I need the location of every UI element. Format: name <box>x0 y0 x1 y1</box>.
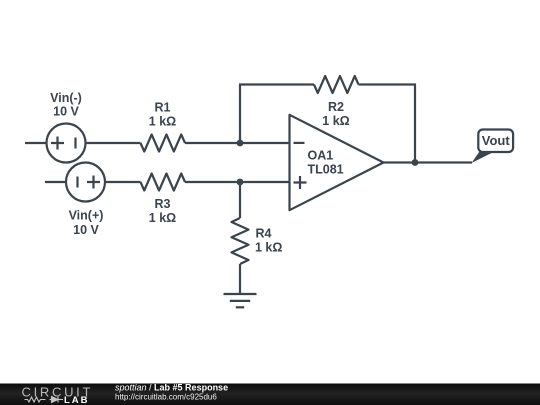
svg-text:1 kΩ: 1 kΩ <box>322 114 349 128</box>
label R3 1 kΩ <box>149 197 176 225</box>
junction node A (R1 / R2 / inverting input) <box>237 140 244 147</box>
wire node B down to R4 <box>239 181 241 218</box>
wire V1 left lead <box>25 142 47 144</box>
svg-text:1 kΩ: 1 kΩ <box>149 211 176 225</box>
wire feedback riser from node A <box>239 85 241 144</box>
svg-text:R4: R4 <box>256 227 272 241</box>
wire R1 to op-amp inverting input <box>185 142 290 144</box>
svg-text:http://circuitlab.com/c925du6: http://circuitlab.com/c925du6 <box>115 392 217 401</box>
label op-amp OA1 TL081 <box>308 149 344 177</box>
node flag Vout <box>472 130 514 164</box>
label R2 1 kΩ <box>322 100 349 128</box>
wire feedback top left to R2 <box>239 83 314 85</box>
resistor R4 <box>232 218 249 264</box>
resistor R3 <box>141 174 185 191</box>
junction node B (R3 / R4 / non-inverting input) <box>237 179 244 186</box>
voltage source V1 Vin(-) <box>47 124 86 163</box>
op-amp U1 body <box>290 115 384 210</box>
svg-text:10 V: 10 V <box>53 105 79 119</box>
wire V1 to R1 <box>86 142 141 144</box>
svg-text:R3: R3 <box>155 197 171 211</box>
svg-text:OA1: OA1 <box>308 149 334 163</box>
svg-text:1 kΩ: 1 kΩ <box>149 115 176 129</box>
label R1 1 kΩ <box>149 101 176 129</box>
svg-text:10 V: 10 V <box>73 223 99 237</box>
svg-text:Vout: Vout <box>482 133 511 148</box>
svg-text:Vin(-): Vin(-) <box>50 91 82 105</box>
junction output node <box>412 159 419 166</box>
voltage source V2 Vin(+) <box>66 163 105 202</box>
svg-text:R2: R2 <box>328 100 344 114</box>
ground <box>224 294 257 307</box>
svg-text:spottian / Lab #5 Response: spottian / Lab #5 Response <box>115 383 228 393</box>
svg-text:LAB: LAB <box>64 395 90 405</box>
label V1 Vin(-) 10 V <box>50 91 82 119</box>
label R4 1 kΩ <box>255 227 282 255</box>
svg-text:TL081: TL081 <box>308 163 344 177</box>
wire R3 to op-amp non-inverting input <box>185 181 290 183</box>
svg-text:Vin(+): Vin(+) <box>69 209 104 223</box>
label V2 Vin(+) 10 V <box>69 209 104 238</box>
wire V2 left lead <box>45 181 66 183</box>
wire R4 to ground <box>239 264 241 294</box>
resistor R2 <box>314 76 358 93</box>
CircuitLab logo resistor-diode glyph <box>25 397 64 403</box>
resistor R1 <box>141 135 185 152</box>
svg-text:1 kΩ: 1 kΩ <box>255 241 282 255</box>
wire R2 to output riser <box>359 83 417 85</box>
svg-text:R1: R1 <box>155 101 171 115</box>
wire output riser down to output node <box>414 84 416 163</box>
wire op-amp output <box>384 161 473 163</box>
wire V2 to R3 <box>105 181 141 183</box>
